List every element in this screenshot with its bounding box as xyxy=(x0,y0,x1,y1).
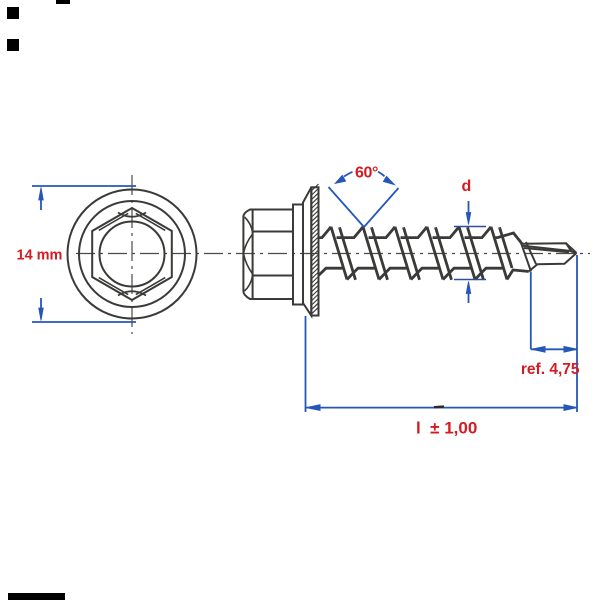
hex chamfer arc upper-right xyxy=(136,213,165,230)
14mm bottom extension line xyxy=(32,321,136,323)
svg-text:14 mm: 14 mm xyxy=(17,248,63,264)
corner mark bar B xyxy=(56,0,70,4)
60 degree right arm xyxy=(364,188,399,227)
hex facet boundary lower xyxy=(253,275,293,277)
60 degree left arm xyxy=(329,187,365,227)
thread flank band 6 xyxy=(491,227,507,280)
front view vertical centerline xyxy=(131,175,133,334)
metal washer cap xyxy=(303,187,311,315)
hex chamfer curve B xyxy=(244,234,253,253)
thread flank band 4 xyxy=(427,227,443,280)
thread bottom silhouette xyxy=(319,268,529,279)
tick on l dimension line xyxy=(434,405,444,408)
drill point tip face xyxy=(566,243,577,253)
hex head hexagon (front view) xyxy=(92,208,172,300)
ref left arrow xyxy=(532,347,545,353)
hex chamfer arc upper-left xyxy=(99,213,128,230)
thread flank band 3 xyxy=(395,227,411,280)
l dimension line xyxy=(306,407,578,409)
svg-text:60°: 60° xyxy=(355,165,378,182)
thread flank band 5 xyxy=(459,227,475,280)
14mm top extension line xyxy=(32,185,136,187)
hex chamfer arc lower-left xyxy=(99,278,128,295)
drill point bottom edge xyxy=(529,253,577,272)
head flange disk xyxy=(293,205,303,305)
corner mark bottom bar D xyxy=(8,593,65,600)
d dimension bottom arrow xyxy=(466,282,471,294)
svg-text:ref. 4,75: ref. 4,75 xyxy=(521,361,580,378)
hex chamfer arc top xyxy=(118,213,146,217)
hex chamfer arc lower-right xyxy=(136,278,165,295)
dimension OD extension tick top xyxy=(454,226,486,228)
hex head side view outline xyxy=(243,210,293,300)
drill point flute edge 2 xyxy=(524,248,569,252)
hex chamfer curve A xyxy=(245,217,253,233)
corner mark square C xyxy=(7,39,19,51)
ref left extension line xyxy=(530,272,532,349)
d dimension top arrow xyxy=(468,201,470,213)
rubber seal hatching xyxy=(311,184,318,314)
hex chamfer curve C xyxy=(244,254,253,274)
l dimension left extension line xyxy=(305,316,307,412)
ref right arrow xyxy=(564,347,577,353)
14mm top arrow xyxy=(39,188,44,201)
screw shank circle (front view) xyxy=(100,222,165,287)
drill point flute edge 1 xyxy=(523,246,571,251)
drill flute remnant line 1 xyxy=(520,240,531,272)
horizontal centerline axis xyxy=(76,253,590,255)
dimension OD extension tick bottom xyxy=(454,279,486,281)
svg-text:l ± 1,00: l ± 1,00 xyxy=(416,419,477,438)
hex facet boundary upper xyxy=(253,231,293,233)
hex chamfer curve D xyxy=(245,276,253,292)
ref right extension line xyxy=(576,255,578,412)
washer outer circle (front view) xyxy=(68,190,197,319)
60 degree right arc with arrow xyxy=(378,172,385,177)
washer inner circle (front view) xyxy=(79,201,185,307)
drill point top edge xyxy=(522,243,577,253)
corner mark square A xyxy=(7,7,19,19)
hex chamfer arc bottom xyxy=(118,291,146,295)
thread top silhouette xyxy=(319,227,523,244)
ref dimension line xyxy=(531,348,577,350)
drill flute remnant line 2 xyxy=(526,242,536,264)
14mm bottom arrow xyxy=(39,308,44,321)
rubber seal strip xyxy=(311,187,318,315)
60 degree left arc with arrow xyxy=(344,172,353,177)
thread flank band 2 xyxy=(363,227,379,280)
svg-text:d: d xyxy=(462,178,472,195)
thread flank band 1 xyxy=(331,227,347,280)
l right arrow xyxy=(564,405,577,411)
hex head facet line xyxy=(252,210,254,300)
l left arrow xyxy=(307,405,321,411)
